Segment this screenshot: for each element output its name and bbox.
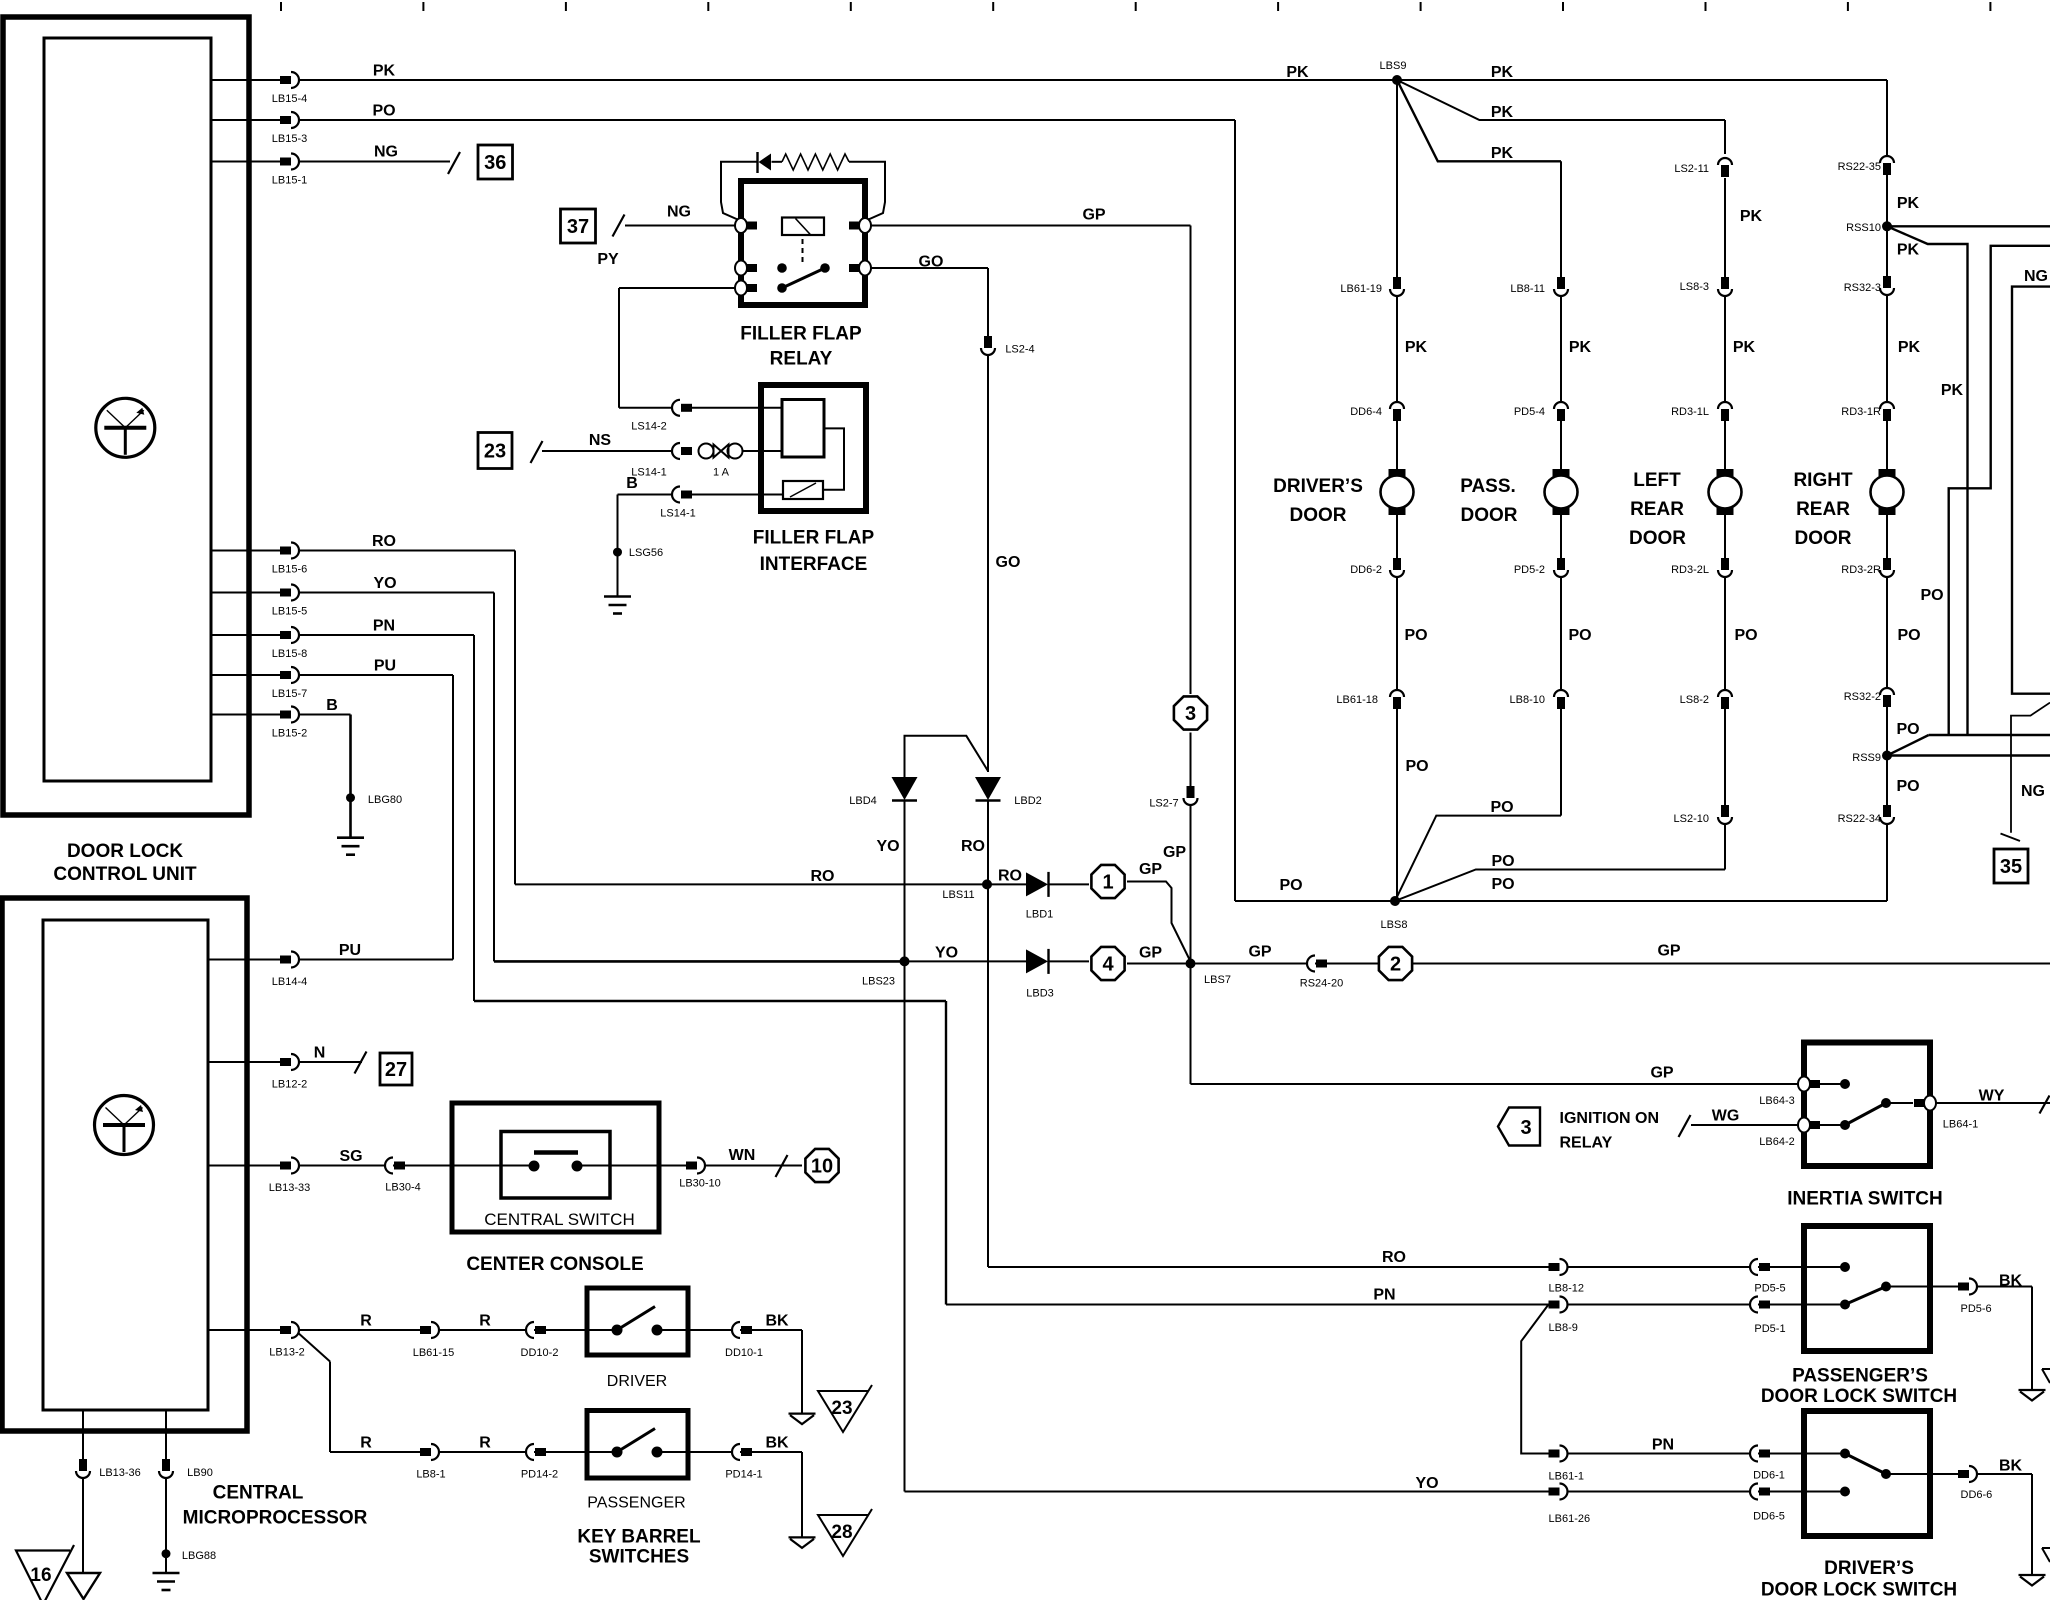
connector RD3-1R xyxy=(1880,402,1894,409)
svg-text:PK: PK xyxy=(1286,64,1309,81)
wire GP octagon 1 to LBS7 xyxy=(1127,882,1191,962)
wire PK RSS10 branch down xyxy=(1887,226,1968,735)
svg-text:LS8-3: LS8-3 xyxy=(1680,281,1709,293)
svg-text:LB8-12: LB8-12 xyxy=(1549,1283,1584,1295)
svg-text:LS2-10: LS2-10 xyxy=(1674,813,1709,825)
svg-text:DOOR: DOOR xyxy=(1290,505,1347,526)
wire NG bracket right edge xyxy=(2012,287,2050,694)
svg-text:RSS9: RSS9 xyxy=(1852,752,1881,764)
wire microprocessor ground stub LB90 xyxy=(165,1410,167,1467)
svg-text:GO: GO xyxy=(996,554,1021,571)
diode LBD3 xyxy=(1026,949,1048,973)
svg-text:23: 23 xyxy=(484,441,506,463)
svg-text:PN: PN xyxy=(1373,1287,1395,1304)
connector LS8-3 xyxy=(1721,277,1729,289)
wire R branch to passenger barrel xyxy=(296,1331,330,1362)
slash WN octagon10 xyxy=(776,1155,788,1177)
svg-text:LB15-4: LB15-4 xyxy=(272,93,307,105)
svg-text:LBD1: LBD1 xyxy=(1026,909,1054,921)
ground arrow BK driver lock xyxy=(2019,1574,2046,1576)
driver lock switch contacts xyxy=(1840,1449,1850,1459)
svg-text:DOOR: DOOR xyxy=(1795,528,1852,549)
wire YO LBD4 to LBS23 xyxy=(904,801,906,962)
svg-text:LBS7: LBS7 xyxy=(1204,974,1231,986)
wire diode bracket over LBD4 LBD2 xyxy=(905,736,989,777)
wire B LS14-1 to interface xyxy=(692,494,783,496)
svg-text:PN: PN xyxy=(1652,1437,1674,1454)
svg-text:GP: GP xyxy=(1082,207,1105,224)
driver's door lock switch box xyxy=(1804,1411,1930,1536)
svg-text:LB15-2: LB15-2 xyxy=(272,728,307,740)
wire NS ref23 to LS14-1 xyxy=(542,450,673,452)
connector PD5-2 xyxy=(1557,558,1565,570)
connector RD3-2L xyxy=(1721,558,1729,570)
svg-text:DD6-6: DD6-6 xyxy=(1961,1489,1993,1501)
svg-text:NG: NG xyxy=(2021,783,2045,800)
ref square 23 xyxy=(478,433,512,469)
page column tick marks xyxy=(280,2,282,11)
connector DD10-2 xyxy=(526,1322,534,1338)
connector RD3-1L xyxy=(1718,402,1732,409)
svg-text:2: 2 xyxy=(1390,954,1401,976)
svg-text:GP: GP xyxy=(1657,943,1680,960)
connector DD6-6 xyxy=(1958,1470,1969,1478)
driver key barrel lever xyxy=(617,1307,655,1331)
motor left rear door xyxy=(1717,469,1734,477)
svg-text:PO: PO xyxy=(372,103,395,120)
svg-text:PK: PK xyxy=(1941,382,1964,399)
svg-text:N: N xyxy=(314,1045,326,1062)
svg-text:3: 3 xyxy=(1185,703,1196,725)
svg-text:B: B xyxy=(326,697,338,714)
svg-text:LB8-11: LB8-11 xyxy=(1510,283,1545,295)
connector LB30-4 xyxy=(385,1158,393,1174)
svg-text:GP: GP xyxy=(1139,861,1162,878)
svg-text:MICROPROCESSOR: MICROPROCESSOR xyxy=(183,1508,368,1529)
svg-text:PD5-4: PD5-4 xyxy=(1514,406,1545,418)
connector PD5-1 xyxy=(1750,1297,1758,1313)
inertia switch contact dots xyxy=(1840,1079,1850,1089)
central microprocessor inner box xyxy=(43,920,208,1410)
svg-text:RS32-3: RS32-3 xyxy=(1844,282,1881,294)
svg-text:DRIVER’S: DRIVER’S xyxy=(1824,1558,1914,1579)
svg-text:PK: PK xyxy=(1740,208,1763,225)
svg-text:DD6-5: DD6-5 xyxy=(1753,1511,1785,1523)
diode LBD4 xyxy=(892,777,918,800)
svg-text:PASS.: PASS. xyxy=(1460,476,1516,497)
svg-text:DRIVER’S: DRIVER’S xyxy=(1273,476,1363,497)
svg-text:PO: PO xyxy=(1896,721,1919,738)
wire PN LB8-9 to passenger lock switch xyxy=(1568,1304,1845,1306)
svg-text:LB61-26: LB61-26 xyxy=(1549,1513,1591,1525)
svg-text:LS2-4: LS2-4 xyxy=(1005,344,1034,356)
connector RS32-3 xyxy=(1883,276,1891,288)
motor passenger door xyxy=(1553,469,1570,477)
relay loop resistor xyxy=(782,154,849,170)
svg-text:DD6-1: DD6-1 xyxy=(1753,1470,1785,1482)
relay coil-switch dashed link xyxy=(802,239,804,262)
svg-text:RS22-34: RS22-34 xyxy=(1838,813,1881,825)
slash NG ref35 xyxy=(2001,834,2021,842)
svg-text:LB61-1: LB61-1 xyxy=(1549,1471,1584,1483)
ground arrow BK passenger lock xyxy=(2019,1389,2046,1391)
svg-text:BK: BK xyxy=(765,1435,789,1452)
wire LS14-2 to interface xyxy=(692,407,782,409)
svg-text:LSG56: LSG56 xyxy=(629,547,663,559)
fuse 1A symbol xyxy=(699,444,714,459)
connector LB13-36 xyxy=(79,1459,87,1471)
connector LB8-9 xyxy=(1549,1301,1560,1309)
svg-text:DOOR LOCK SWITCH: DOOR LOCK SWITCH xyxy=(1761,1580,1957,1600)
svg-text:GP: GP xyxy=(1139,945,1162,962)
node LSG56 xyxy=(613,548,622,557)
passenger lock switch lever xyxy=(1845,1287,1886,1305)
wire GP octagon3 to LBS7 xyxy=(1190,733,1192,964)
connector DD6-1 xyxy=(1750,1446,1758,1462)
svg-text:10: 10 xyxy=(811,1156,833,1178)
svg-text:LB90: LB90 xyxy=(187,1467,213,1479)
wire NS fuse to interface xyxy=(743,450,782,452)
motor driver's door xyxy=(1389,469,1406,477)
connector LB8-11 xyxy=(1557,277,1565,289)
svg-text:PU: PU xyxy=(374,658,396,675)
svg-text:DRIVER: DRIVER xyxy=(607,1373,667,1390)
svg-text:LBS9: LBS9 xyxy=(1380,60,1407,72)
svg-text:LBS11: LBS11 xyxy=(942,889,974,901)
connector LS8-2 xyxy=(1718,690,1732,697)
svg-text:LBD2: LBD2 xyxy=(1014,795,1042,807)
wire WY from inertia switch xyxy=(1924,1102,2050,1104)
wire PK branch to pass door column xyxy=(1397,80,1561,161)
svg-text:PD5-1: PD5-1 xyxy=(1754,1323,1785,1335)
ground LSG56 xyxy=(604,595,631,598)
connector LS2-7 xyxy=(1187,786,1195,798)
svg-text:28: 28 xyxy=(831,1522,852,1543)
slash N ref27 xyxy=(355,1052,367,1074)
wire driver lock output BK xyxy=(1886,1473,1959,1475)
svg-text:RD3-1R: RD3-1R xyxy=(1841,406,1881,418)
wire SG central switch to octagon 10 xyxy=(577,1165,802,1167)
svg-text:INTERFACE: INTERFACE xyxy=(760,554,868,575)
svg-text:LBD4: LBD4 xyxy=(849,795,877,807)
svg-text:RS22-35: RS22-35 xyxy=(1838,161,1881,173)
wire PO from control unit LB15-3 xyxy=(211,119,299,121)
wire PK RSS9 to right edge xyxy=(1887,754,2050,757)
svg-text:LB14-4: LB14-4 xyxy=(272,976,307,988)
driver key barrel switch box xyxy=(587,1288,688,1355)
inertia pin LB64-1 xyxy=(1924,1096,1936,1111)
svg-text:PO: PO xyxy=(1490,799,1513,816)
connector LS14-1 xyxy=(672,443,680,459)
wire PU stub microprocessor LB14-4 xyxy=(208,959,280,961)
connector LB14-4 xyxy=(280,956,291,964)
node LBG88 xyxy=(162,1549,171,1558)
svg-text:LB13-36: LB13-36 xyxy=(99,1467,141,1479)
pentagon ref 3 ignition on relay xyxy=(1498,1108,1540,1146)
svg-text:PO: PO xyxy=(1491,853,1514,870)
svg-text:LS14-2: LS14-2 xyxy=(631,421,666,433)
connector LB15-1 xyxy=(280,158,291,166)
svg-text:LB13-2: LB13-2 xyxy=(269,1347,304,1359)
svg-text:LS8-2: LS8-2 xyxy=(1680,694,1709,706)
svg-text:27: 27 xyxy=(385,1059,407,1081)
wire SG from microprocessor LB13-33 xyxy=(208,1165,299,1167)
svg-text:NS: NS xyxy=(589,432,612,449)
wire inertia WG pin to contact xyxy=(1816,1124,1845,1126)
svg-text:NG: NG xyxy=(374,144,398,161)
connector PD14-2 xyxy=(526,1444,534,1460)
svg-text:REAR: REAR xyxy=(1796,499,1850,520)
svg-text:LBD3: LBD3 xyxy=(1026,988,1054,1000)
connector DD6-5 xyxy=(1750,1484,1758,1500)
svg-text:PN: PN xyxy=(373,618,395,635)
wire PK left rear column xyxy=(1724,178,1726,870)
ground arrow below LB13-36 xyxy=(67,1573,100,1599)
svg-text:RO: RO xyxy=(1382,1249,1406,1266)
svg-text:PO: PO xyxy=(1404,627,1427,644)
wire R passenger barrel to BK arrow xyxy=(657,1451,802,1453)
svg-text:LB15-5: LB15-5 xyxy=(272,606,307,618)
ref triangle 23 xyxy=(818,1385,872,1432)
wire PO branch left rear to LBS8 xyxy=(1395,870,1725,902)
svg-text:LB13-33: LB13-33 xyxy=(269,1182,311,1194)
wire PK right rear column xyxy=(1886,154,1888,901)
octagon 1 xyxy=(1091,865,1124,898)
node LBS7 xyxy=(1186,959,1196,969)
svg-text:FILLER FLAP: FILLER FLAP xyxy=(740,324,862,345)
svg-text:LB8-1: LB8-1 xyxy=(416,1469,445,1481)
wire RO LBD1 to octagon 1 xyxy=(1049,883,1089,885)
connector LS2-11 xyxy=(1718,158,1732,165)
connector LB61-18 xyxy=(1390,690,1404,697)
connector LS2-4 xyxy=(984,336,992,348)
svg-text:LB30-10: LB30-10 xyxy=(679,1178,721,1190)
svg-text:LB61-15: LB61-15 xyxy=(413,1347,455,1359)
svg-text:PD5-6: PD5-6 xyxy=(1961,1303,1992,1315)
svg-text:PK: PK xyxy=(1898,339,1921,356)
interface driver block xyxy=(782,400,824,458)
svg-text:CENTER CONSOLE: CENTER CONSOLE xyxy=(466,1254,643,1275)
svg-text:GP: GP xyxy=(1248,944,1271,961)
transistor symbol in control unit xyxy=(96,398,155,457)
connector LB8-12 xyxy=(1549,1263,1560,1271)
svg-text:LBG80: LBG80 xyxy=(368,794,402,806)
svg-text:PD5-5: PD5-5 xyxy=(1754,1283,1785,1295)
connector LB61-19 xyxy=(1393,277,1401,289)
svg-text:PK: PK xyxy=(1491,145,1514,162)
wire RO LB8-12 to passenger lock switch xyxy=(1568,1266,1845,1268)
svg-text:BK: BK xyxy=(1999,1273,2023,1290)
svg-text:PASSENGER’S: PASSENGER’S xyxy=(1792,1366,1928,1387)
svg-text:LB8-10: LB8-10 xyxy=(1510,694,1545,706)
svg-text:PO: PO xyxy=(1491,876,1514,893)
svg-text:WY: WY xyxy=(1979,1088,2005,1105)
passenger key barrel contacts xyxy=(612,1447,623,1458)
connector RS32-2 xyxy=(1880,688,1894,695)
connector DD10-1 xyxy=(732,1322,740,1338)
inertia pin LB64-3 xyxy=(1798,1077,1810,1092)
svg-text:DD6-4: DD6-4 xyxy=(1350,406,1382,418)
svg-text:PO: PO xyxy=(1920,587,1943,604)
svg-text:R: R xyxy=(479,1435,491,1452)
svg-text:YO: YO xyxy=(935,945,958,962)
wire N from microprocessor LB12-2 xyxy=(208,1061,299,1063)
slash NG ref36 xyxy=(448,152,460,174)
wire passenger lock output BK xyxy=(1886,1286,1959,1288)
svg-text:LBG88: LBG88 xyxy=(182,1550,216,1562)
svg-text:35: 35 xyxy=(2000,856,2022,878)
svg-text:LB61-19: LB61-19 xyxy=(1340,283,1382,295)
relay switch contact dots xyxy=(777,263,787,273)
connector LB12-2 xyxy=(280,1058,291,1066)
wire inertia lever to pin xyxy=(1886,1102,1913,1104)
wire GP LBS7 to inertia switch xyxy=(1190,964,1192,1085)
wire PK RSS10 to right edge xyxy=(1887,225,2050,227)
svg-text:23: 23 xyxy=(831,1398,852,1419)
svg-text:LB15-6: LB15-6 xyxy=(272,564,307,576)
central microprocessor outer box xyxy=(2,898,247,1431)
wire PN LB61-1 to driver lock switch xyxy=(1568,1453,1845,1455)
svg-text:PK: PK xyxy=(1405,339,1428,356)
driver lock switch lever xyxy=(1845,1454,1886,1475)
svg-text:37: 37 xyxy=(567,216,589,238)
central switch inner box xyxy=(501,1132,610,1199)
wire GP relay to vertical xyxy=(865,225,1191,227)
wire B from control unit LB15-2 xyxy=(211,714,299,716)
svg-text:LB15-8: LB15-8 xyxy=(272,648,307,660)
wire GO relay to LBD2 xyxy=(865,267,988,269)
wire B LS14-1 row xyxy=(618,494,674,496)
svg-text:INERTIA SWITCH: INERTIA SWITCH xyxy=(1787,1189,1943,1210)
svg-text:SG: SG xyxy=(339,1148,362,1165)
svg-text:NG: NG xyxy=(2024,268,2048,285)
svg-text:PO: PO xyxy=(1568,627,1591,644)
svg-text:LB64-1: LB64-1 xyxy=(1943,1119,1978,1131)
partial ref triangle right edge upper xyxy=(2042,1368,2050,1370)
svg-text:LS2-11: LS2-11 xyxy=(1674,163,1709,175)
svg-text:PO: PO xyxy=(1279,877,1302,894)
svg-text:YO: YO xyxy=(1415,1475,1438,1492)
svg-text:LB64-3: LB64-3 xyxy=(1759,1095,1794,1107)
connector RS24-20 xyxy=(1307,956,1315,972)
svg-text:LB30-4: LB30-4 xyxy=(385,1182,420,1194)
passenger's door lock switch box xyxy=(1804,1226,1930,1351)
wire PK from control unit LB15-4 xyxy=(211,79,299,81)
svg-text:LB15-7: LB15-7 xyxy=(272,688,307,700)
slash NS ref23 xyxy=(531,441,543,463)
ground LBG88 xyxy=(153,1572,180,1575)
node LBS11 xyxy=(982,879,992,889)
svg-text:YO: YO xyxy=(876,838,899,855)
svg-text:BK: BK xyxy=(1999,1458,2023,1475)
passenger key barrel switch box xyxy=(587,1411,688,1479)
svg-text:WN: WN xyxy=(729,1147,756,1164)
svg-text:RSS10: RSS10 xyxy=(1846,222,1881,234)
svg-text:LB8-9: LB8-9 xyxy=(1549,1322,1578,1334)
connector LS14-2 xyxy=(672,400,680,416)
wire RO LBD2 to LB8-12 xyxy=(987,800,989,1267)
svg-text:DD6-2: DD6-2 xyxy=(1350,564,1382,576)
connector DD6-4 xyxy=(1390,402,1404,409)
ground LBG80 xyxy=(337,836,364,839)
wire R from microprocessor LB13-2 xyxy=(208,1329,299,1331)
connector PD5-6 xyxy=(1958,1283,1969,1291)
ref triangle 16 xyxy=(16,1545,74,1600)
svg-text:GO: GO xyxy=(919,254,944,271)
driver key barrel contacts xyxy=(612,1325,623,1336)
svg-text:PK: PK xyxy=(1569,339,1592,356)
svg-text:PK: PK xyxy=(1897,242,1920,259)
partial ref triangle right edge lower xyxy=(2042,1547,2050,1549)
octagon 4 xyxy=(1091,947,1124,980)
svg-text:LEFT: LEFT xyxy=(1633,470,1681,491)
wire PN LB8-9 branch to LB61-1 xyxy=(1521,1305,1548,1454)
inertia switch lever xyxy=(1845,1103,1886,1125)
ref triangle 28 xyxy=(818,1509,872,1556)
connector LB15-3 xyxy=(280,116,291,124)
connector RD3-2R xyxy=(1883,558,1891,570)
svg-text:DD10-1: DD10-1 xyxy=(725,1347,763,1359)
connector LB61-15 xyxy=(420,1326,431,1334)
svg-text:LB12-2: LB12-2 xyxy=(272,1079,307,1091)
svg-text:NG: NG xyxy=(667,204,691,221)
wire PU from control unit LB15-7 xyxy=(211,674,299,676)
svg-text:SWITCHES: SWITCHES xyxy=(589,1547,689,1568)
svg-text:RO: RO xyxy=(811,868,835,885)
door lock control unit inner box xyxy=(44,38,211,781)
ground arrow BK driver barrel xyxy=(789,1412,816,1414)
wire NG ref37 to relay xyxy=(625,225,741,227)
svg-text:RO: RO xyxy=(998,868,1022,885)
center console outer box xyxy=(452,1103,659,1232)
wire YO LBS23 to diode LBD3 xyxy=(905,960,1027,962)
svg-text:RELAY: RELAY xyxy=(770,349,833,370)
connector LB15-7 xyxy=(280,671,291,679)
wire microprocessor ground stub LB13-36 xyxy=(82,1410,84,1467)
relay pin row3 left xyxy=(735,281,747,296)
connector DD6-2 xyxy=(1393,558,1401,570)
connector PD14-1 xyxy=(732,1444,740,1460)
interface resistor block xyxy=(783,481,823,499)
central switch bar xyxy=(534,1150,578,1155)
relay pin row2 right xyxy=(859,261,871,276)
wire NG from control unit LB15-1 to ref 36 xyxy=(211,161,299,163)
wire PO main row LBS8 to right rear xyxy=(1395,900,1887,902)
svg-text:RO: RO xyxy=(961,838,985,855)
inertia switch box xyxy=(1804,1043,1930,1167)
connector LB15-4 xyxy=(280,76,291,84)
svg-text:16: 16 xyxy=(30,1565,51,1586)
interface internal link xyxy=(823,428,844,489)
wire NG to ref 35 xyxy=(2011,703,2050,833)
wire inertia GP pin to contact xyxy=(1816,1083,1845,1085)
connector LB30-10 xyxy=(686,1162,697,1170)
svg-text:PD14-1: PD14-1 xyxy=(725,1469,762,1481)
svg-text:YO: YO xyxy=(373,575,396,592)
node LBS23 xyxy=(900,956,910,966)
central switch contact dots xyxy=(529,1161,540,1172)
wire PK column driver door xyxy=(1396,80,1398,901)
ref square 37 xyxy=(561,209,596,243)
relay pin row1 right xyxy=(859,218,871,233)
svg-text:DOOR LOCK SWITCH: DOOR LOCK SWITCH xyxy=(1761,1386,1957,1407)
svg-text:4: 4 xyxy=(1102,954,1114,976)
svg-text:GP: GP xyxy=(1163,844,1186,861)
wire RO from control unit LB15-6 xyxy=(211,550,299,552)
svg-text:PO: PO xyxy=(1405,758,1428,775)
svg-text:DOOR: DOOR xyxy=(1461,505,1518,526)
connector LB61-1 xyxy=(1549,1450,1560,1458)
